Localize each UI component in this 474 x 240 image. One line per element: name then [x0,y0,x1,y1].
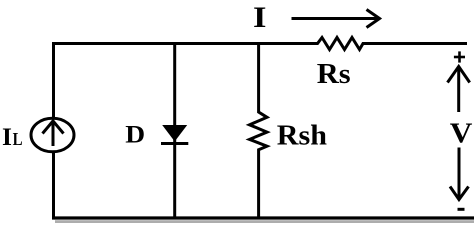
svg-text:D: D [125,121,145,149]
svg-text:Rs: Rs [317,59,351,90]
svg-text:I: I [2,122,12,151]
svg-text:I: I [253,1,266,34]
svg-text:V: V [450,119,473,149]
svg-text:Rsh: Rsh [277,121,327,152]
svg-text:L: L [13,130,23,149]
